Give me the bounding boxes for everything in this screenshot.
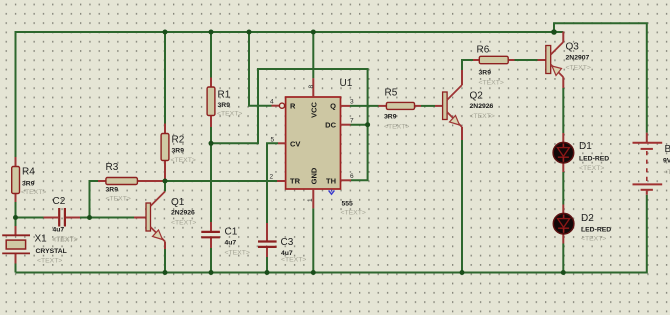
svg-text:<TEXT>: <TEXT>: [281, 257, 306, 264]
U1 pin Q stub, pin 3: [330, 99, 354, 111]
svg-text:4u7: 4u7: [53, 227, 65, 234]
svg-text:4: 4: [270, 99, 274, 106]
node junction top rail at R2: [163, 30, 168, 35]
wire Q3 emitter to D1: [562, 88, 564, 133]
svg-text:<TEXT>: <TEXT>: [217, 111, 242, 118]
wire C3 bottom to ground: [266, 257, 268, 273]
node junction ground at C3: [265, 270, 270, 275]
wire CV to C3: [267, 143, 278, 223]
wire D2 to ground rail: [562, 244, 564, 273]
svg-text:3R9: 3R9: [218, 102, 231, 109]
U1 pin CV stub, pin 5: [271, 137, 301, 149]
svg-text:CV: CV: [290, 139, 300, 148]
wire Q1 emitter to ground: [164, 249, 166, 273]
wire pin4 reset: [249, 32, 272, 106]
capacitor C1: [201, 222, 250, 257]
wire R4 node to C2: [16, 217, 44, 219]
svg-text:<TEXT>: <TEXT>: [579, 165, 604, 172]
svg-text:R1: R1: [218, 90, 231, 101]
node junction ground at D2: [561, 270, 566, 275]
svg-text:<TEXT>: <TEXT>: [566, 65, 591, 72]
svg-text:Q3: Q3: [566, 42, 580, 53]
svg-text:C3: C3: [281, 237, 294, 248]
svg-text:Q1: Q1: [171, 197, 185, 208]
U1 pin VCC stub, pin 8: [308, 78, 319, 118]
node junction ground at Q2 emitter: [460, 270, 465, 275]
svg-text:<TEXT>: <TEXT>: [341, 210, 366, 217]
svg-text:3R9: 3R9: [479, 70, 492, 77]
wire VCC top rail: [16, 32, 564, 157]
node junction R4 C2: [13, 215, 18, 220]
wire TR pin2 to R3 node: [165, 180, 277, 182]
svg-text:555: 555: [342, 201, 354, 208]
capacitor C2: [44, 196, 81, 243]
svg-text:2N2907: 2N2907: [566, 55, 590, 62]
svg-text:2: 2: [270, 174, 274, 181]
U1 pin DC stub, pin 7: [325, 118, 354, 130]
svg-text:R6: R6: [477, 45, 490, 56]
svg-text:2N2926: 2N2926: [470, 103, 494, 110]
wire Q output to R5: [350, 105, 379, 107]
wire R5 to Q2 base: [421, 105, 435, 107]
capacitor C3: [258, 223, 306, 264]
svg-text:Q: Q: [330, 102, 336, 111]
svg-text:9V: 9V: [663, 158, 670, 165]
svg-text:R5: R5: [385, 88, 398, 99]
wire R1 bottom to node: [210, 127, 212, 222]
svg-text:4u7: 4u7: [225, 240, 237, 247]
wire DC pin7: [351, 124, 368, 126]
U1 orientation marker blue arrow: [329, 190, 335, 195]
wire C2 to Q1 base: [80, 217, 134, 219]
wire Q2 emitter to ground: [461, 140, 463, 273]
transistor Q3: [538, 32, 591, 89]
svg-text:D1: D1: [579, 141, 592, 152]
svg-text:DC: DC: [325, 121, 336, 130]
node junction top rail at VCC: [311, 30, 316, 35]
wire D1 to D2: [562, 172, 564, 205]
svg-text:<TEXT>: <TEXT>: [384, 124, 409, 131]
svg-text:R3: R3: [106, 162, 119, 173]
svg-text:R: R: [290, 102, 296, 111]
wire battery positive branch: [554, 23, 647, 133]
svg-text:<TEXT>: <TEXT>: [225, 250, 250, 257]
op-amp U1 555 timer body: [286, 78, 366, 217]
svg-text:3R9: 3R9: [106, 187, 119, 194]
node junction top rail at R1: [209, 30, 214, 35]
svg-text:<TEXT>: <TEXT>: [171, 157, 196, 164]
svg-text:B1: B1: [665, 144, 670, 155]
svg-text:U1: U1: [340, 78, 353, 89]
U1 pin TR stub, pin 2: [270, 174, 301, 186]
svg-text:TH: TH: [326, 177, 336, 186]
wire left vertical below R4: [15, 202, 17, 226]
wire GND pin to ground rail: [312, 208, 314, 272]
svg-text:CRYSTAL: CRYSTAL: [36, 248, 67, 255]
node junction C2 R3: [87, 215, 92, 220]
node junction top rail at battery branch: [551, 29, 557, 35]
svg-text:VCC: VCC: [310, 102, 319, 118]
svg-text:TR: TR: [290, 177, 301, 186]
node junction R1 bottom: [209, 141, 214, 146]
node junction ground at Q1 emitter: [163, 270, 168, 275]
svg-text:5: 5: [271, 137, 275, 144]
transistor Q1: [134, 192, 196, 250]
svg-text:<TEXT>: <TEXT>: [664, 169, 670, 176]
resistor R3: [98, 162, 164, 203]
svg-text:<TEXT>: <TEXT>: [479, 80, 504, 87]
resistor R1: [207, 78, 242, 128]
svg-text:GND: GND: [310, 167, 319, 184]
svg-text:<TEXT>: <TEXT>: [106, 196, 131, 203]
node junction ground at C1: [209, 270, 214, 275]
wire ground bottom rail: [16, 195, 647, 273]
svg-text:C2: C2: [53, 196, 66, 207]
transistor Q2: [435, 70, 495, 140]
resistor R5: [379, 88, 422, 131]
wire R1 column top: [210, 32, 212, 78]
svg-text:R4: R4: [22, 167, 35, 178]
svg-text:3R9: 3R9: [384, 114, 397, 121]
wire C1 bottom to ground: [210, 248, 212, 273]
svg-text:<TEXT>: <TEXT>: [171, 220, 196, 227]
node junction R3 R2 Q1 collector: [163, 179, 168, 184]
battery B1: [633, 133, 670, 195]
svg-text:2N2926: 2N2926: [171, 210, 195, 217]
svg-text:X1: X1: [35, 234, 48, 245]
U1 pin GND stub, pin 1: [307, 167, 319, 208]
resistor R6: [473, 45, 515, 87]
wire node to TH loop: [211, 69, 368, 180]
svg-text:<TEXT>: <TEXT>: [37, 258, 62, 265]
node junction top rail at pin4: [247, 30, 252, 35]
svg-text:7: 7: [350, 118, 354, 125]
svg-text:1: 1: [307, 198, 314, 202]
LED D2: [553, 205, 611, 244]
svg-text:3R9: 3R9: [22, 181, 35, 188]
resistor R2: [161, 124, 196, 182]
U1 pin R stub with bubble, pin 4: [270, 99, 296, 111]
svg-text:8: 8: [308, 85, 315, 89]
svg-text:3R9: 3R9: [172, 148, 185, 155]
wire Q2 collector to R6 row: [462, 60, 473, 70]
crystal X1: [2, 226, 77, 265]
svg-text:D2: D2: [581, 213, 594, 224]
wire R3 left end down to C2 node: [90, 181, 99, 218]
wire R6 to Q3 base: [515, 59, 538, 61]
svg-text:6: 6: [350, 173, 354, 180]
U1 pin TH stub, pin 6: [326, 173, 354, 186]
resistor R4: [12, 157, 47, 202]
svg-text:<TEXT>: <TEXT>: [21, 189, 46, 196]
svg-text:Q2: Q2: [470, 91, 484, 102]
svg-text:LED-RED: LED-RED: [581, 227, 611, 234]
LED D1: [553, 133, 609, 172]
svg-text:C1: C1: [225, 227, 238, 238]
node junction ground at GND pin: [311, 270, 316, 275]
wire VCC pin column: [312, 32, 314, 78]
wire Q1 collector stub: [164, 181, 166, 192]
wire R2 column top: [164, 32, 166, 124]
svg-text:<TEXT>: <TEXT>: [470, 113, 495, 120]
svg-text:R2: R2: [172, 135, 185, 146]
svg-text:3: 3: [350, 99, 354, 106]
svg-text:<TEXT>: <TEXT>: [53, 236, 78, 243]
wire crystal bottom to ground rail: [15, 264, 17, 273]
node junction DC pin7: [365, 122, 370, 127]
svg-text:LED-RED: LED-RED: [579, 156, 609, 163]
svg-text:<TEXT>: <TEXT>: [581, 236, 606, 243]
